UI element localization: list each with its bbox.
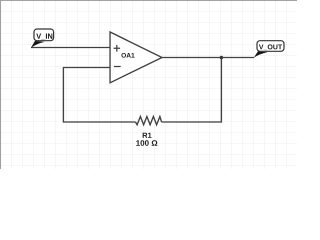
resistor R1 value label "100 Ohm" xyxy=(136,140,157,146)
resistor R1 label xyxy=(143,133,152,138)
left canvas border xyxy=(0,0,2,169)
wire V_IN to op-amp noninverting input xyxy=(31,47,110,49)
wire feedback left: inverting input to left vertical xyxy=(63,68,135,123)
wire feedback right: output junction down to resistor xyxy=(162,58,222,123)
top canvas border xyxy=(0,0,297,2)
net label flag V_OUT (node V_OUT) xyxy=(254,41,284,58)
net label flag V_IN (node V_IN) xyxy=(31,29,54,48)
op-amp OA1 noninverting (+) pin mark xyxy=(114,45,121,52)
op-amp OA1 inverting (-) pin mark xyxy=(114,66,121,68)
wire junction dot at op-amp output node xyxy=(220,56,224,60)
wire op-amp output xyxy=(162,57,254,59)
resistor R1 xyxy=(136,117,162,125)
op-amp OA1 label xyxy=(121,53,134,58)
op-amp OA1 xyxy=(110,32,162,83)
